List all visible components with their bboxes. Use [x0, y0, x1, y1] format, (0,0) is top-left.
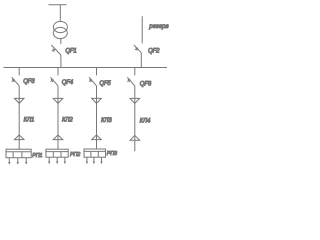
wire: QF3 to cable head: [18, 86, 20, 99]
wire: reserve incomer (резерв): [141, 16, 143, 43]
wire: cable to panel РП2: [57, 140, 59, 150]
wire: QF2 to bus: [140, 53, 142, 68]
wire: spare cable tail: [134, 140, 136, 151]
cable termination (down) feeder 3: [92, 98, 102, 103]
circuit breaker QF3: [12, 77, 20, 86]
svg-text:QF1: QF1: [65, 48, 76, 54]
cable line КЛ2 wire: [57, 98, 59, 139]
svg-text:QF6: QF6: [140, 81, 152, 87]
svg-text:QF5: QF5: [99, 81, 111, 87]
cable line КЛ4 wire: [134, 98, 136, 140]
cable termination (down) feeder 2: [53, 98, 63, 103]
circuit breaker QF2: [134, 45, 142, 53]
cable termination (down) feeder 1: [14, 98, 24, 103]
outgoing arrows РП1: [8, 158, 27, 165]
outgoing arrows РП3: [86, 157, 103, 164]
wire: cable to panel РП3: [96, 140, 98, 149]
circuit breaker QF5: [89, 77, 97, 86]
distribution panel РП1: [6, 149, 31, 158]
svg-text:QF4: QF4: [62, 80, 74, 86]
svg-text:КЛ3: КЛ3: [101, 118, 112, 124]
wire: cable to panel РП1: [18, 140, 20, 150]
wire: QF1 to bus: [60, 55, 62, 68]
distribution panel РП2: [46, 149, 68, 157]
main busbar: [4, 67, 168, 69]
cable line КЛ3 wire: [96, 98, 98, 139]
wire: bus to QF5: [96, 68, 98, 76]
wire: bus to QF4: [57, 68, 59, 76]
supply terminal bar: [49, 4, 67, 6]
cable termination (up) feeder 4: [130, 135, 140, 140]
wire: bus to QF3: [18, 68, 20, 76]
svg-text:РП2: РП2: [70, 152, 80, 158]
svg-text:РП3: РП3: [107, 151, 117, 157]
distribution panel РП3: [84, 149, 106, 157]
svg-text:РП1: РП1: [32, 153, 42, 159]
wire: terminal to transformer: [59, 5, 61, 22]
transformer T1: [53, 21, 67, 38]
svg-text:QF3: QF3: [23, 79, 35, 85]
circuit breaker QF4: [50, 77, 58, 86]
wire: QF6 to cable head: [134, 86, 136, 99]
cable termination (down) feeder 4: [130, 98, 140, 103]
cable termination (up) feeder 2: [53, 135, 63, 140]
svg-text:КЛ1: КЛ1: [24, 117, 35, 123]
svg-text:QF2: QF2: [148, 48, 160, 54]
wire: QF5 to cable head: [96, 86, 98, 99]
wire: transformer to QF1: [60, 39, 62, 44]
svg-text:КЛ2: КЛ2: [62, 117, 73, 123]
outgoing arrows РП2: [48, 157, 66, 164]
svg-text:резерв: резерв: [148, 23, 169, 30]
cable termination (up) feeder 1: [14, 135, 24, 140]
circuit breaker QF6: [127, 77, 135, 86]
wire: QF4 to cable head: [57, 86, 59, 99]
circuit breaker QF1: [51, 45, 61, 55]
wire: bus to QF6: [134, 68, 136, 76]
cable termination (up) feeder 3: [92, 135, 102, 140]
svg-text:КЛ4: КЛ4: [140, 118, 151, 124]
cable line КЛ1 wire: [18, 98, 20, 139]
